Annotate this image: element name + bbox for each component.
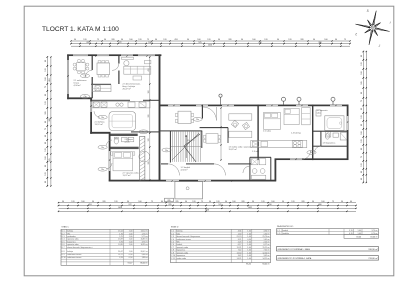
terrace table and chairs (73, 59, 89, 74)
highlight box 285 (165, 198, 174, 201)
svg-text:10,95: 10,95 (118, 244, 123, 246)
svg-text:90: 90 (252, 201, 254, 203)
svg-text:spavaća soba: spavaća soba (67, 239, 79, 241)
west wall middle section with window (90, 99, 92, 134)
svg-text:120: 120 (361, 163, 363, 166)
door arc bedroom left (107, 163, 113, 169)
svg-text:Čbr: Čbr (83, 95, 86, 98)
svg-text:D 6: D 6 (62, 244, 65, 246)
svg-text:13,12: 13,12 (118, 231, 123, 233)
svg-text:14,21 m²: 14,21 m² (263, 257, 271, 260)
svg-text:4,34 m²: 4,34 m² (74, 84, 81, 87)
small bath WC (325, 134, 329, 140)
svg-text:Čbr: Čbr (196, 118, 199, 121)
shaft hatched column (140, 136, 145, 180)
small table and chairs east wing (204, 134, 221, 144)
svg-text:25,70 m²: 25,70 m² (263, 235, 271, 238)
door arc bathroom left (107, 140, 113, 146)
svg-text:90: 90 (187, 39, 189, 41)
interior dimension line east wing (220, 107, 221, 160)
wall small bath east (313, 131, 348, 147)
svg-text:1,88 m²: 1,88 m² (142, 256, 149, 259)
table ZAJEDNICKI DIO (277, 225, 379, 238)
svg-text:STAN C: STAN C (61, 226, 69, 229)
svg-text:D 2: D 2 (62, 233, 65, 235)
svg-text:326: 326 (102, 201, 105, 203)
svg-text:1,00: 1,00 (129, 251, 133, 253)
svg-text:120: 120 (138, 39, 141, 41)
svg-text:160: 160 (252, 39, 255, 41)
svg-text:stubište: stubište (283, 232, 289, 235)
bar GRUPA BRUTO (277, 256, 379, 260)
svg-text:196,90 m²: 196,90 m² (368, 248, 378, 251)
wall office east (227, 128, 230, 143)
right dimension chain (361, 51, 367, 184)
svg-text:90: 90 (341, 201, 343, 203)
svg-text:natkrivena terasa: natkrivena terasa (67, 253, 82, 256)
svg-text:15,87 m²: 15,87 m² (141, 238, 149, 241)
svg-text:2,25 m²: 2,25 m² (264, 240, 271, 243)
svg-text:4,34 m²: 4,34 m² (181, 169, 188, 172)
wall dining-living divider with door (118, 56, 119, 84)
wall under kitchen counters (91, 100, 160, 101)
svg-text:garderoba: garderoba (67, 235, 76, 238)
svg-text:90: 90 (361, 171, 363, 173)
svg-text:1,76: 1,76 (119, 233, 123, 235)
door arc kitchen hall (94, 111, 100, 117)
svg-text:3,42: 3,42 (238, 255, 242, 257)
svg-text:18,40: 18,40 (356, 236, 361, 238)
svg-text:525: 525 (218, 204, 221, 206)
svg-text:5,64 m²: 5,64 m² (142, 253, 149, 256)
svg-text:Čbr: Čbr (101, 146, 104, 149)
wall above bathroom dark band (111, 134, 138, 136)
svg-text:120: 120 (288, 39, 291, 41)
svg-text:60: 60 (45, 135, 47, 137)
svg-text:160: 160 (271, 201, 274, 203)
svg-text:GRUPA NETO POVRŠINA 1. KATA: GRUPA NETO POVRŠINA 1. KATA (278, 248, 311, 251)
sink east bathroom (316, 110, 321, 116)
svg-text:326: 326 (111, 39, 114, 41)
svg-text:0,50: 0,50 (247, 239, 251, 241)
svg-text:1,00: 1,00 (129, 231, 133, 233)
svg-text:1,76 m²: 1,76 m² (142, 232, 149, 235)
svg-text:13,12 m²: 13,12 m² (95, 123, 103, 126)
washing machine east bathroom (325, 132, 330, 137)
svg-text:10,95 m²: 10,95 m² (141, 243, 149, 246)
svg-text:1024: 1024 (118, 207, 122, 209)
svg-text:1,00: 1,00 (247, 231, 251, 233)
door arc small bath (314, 146, 321, 153)
svg-text:75: 75 (45, 128, 47, 130)
svg-text:6,70 m²: 6,70 m² (372, 232, 379, 235)
svg-text:75: 75 (97, 39, 99, 41)
svg-text:0,50: 0,50 (129, 257, 133, 259)
door arc utility (243, 166, 250, 173)
svg-text:75: 75 (361, 100, 363, 102)
central spine wall between wings (159, 54, 161, 181)
staircase treads (171, 132, 202, 162)
west wall lower section (109, 133, 111, 181)
svg-text:160: 160 (361, 131, 363, 134)
svg-text:453: 453 (174, 39, 177, 41)
svg-text:ZAJEDNIČKI DIO: ZAJEDNIČKI DIO (277, 225, 294, 228)
tv bench living room (122, 57, 134, 59)
left dimension chain (45, 56, 52, 187)
svg-text:1,00: 1,00 (247, 244, 251, 246)
svg-text:160: 160 (321, 201, 324, 203)
dining table east wing (175, 111, 193, 123)
svg-text:90: 90 (361, 92, 363, 94)
svg-text:5,75 m²: 5,75 m² (142, 235, 149, 238)
balcony south (175, 182, 203, 199)
door tag corridor (139, 130, 148, 134)
svg-text:3,70 m²: 3,70 m² (372, 229, 379, 232)
svg-text:90: 90 (62, 201, 64, 203)
exterior wall top of left wing with windows (67, 54, 161, 56)
svg-text:D 7: D 7 (62, 247, 65, 249)
svg-text:C 9: C 9 (171, 252, 174, 254)
bar GRUPA NETO (277, 247, 379, 251)
svg-text:90: 90 (361, 124, 363, 126)
svg-text:160: 160 (45, 156, 47, 159)
svg-text:D 3: D 3 (62, 236, 65, 238)
roof vent symbols (219, 94, 335, 105)
svg-text:120: 120 (261, 201, 264, 203)
svg-text:1,00: 1,00 (247, 255, 251, 257)
svg-text:60: 60 (350, 201, 352, 203)
svg-text:6,17: 6,17 (238, 244, 242, 246)
door arc corridor 1 (168, 164, 180, 176)
stair break line (184, 134, 200, 162)
svg-text:1,00: 1,00 (247, 250, 251, 252)
svg-text:96,42: 96,42 (246, 264, 251, 266)
svg-text:15×17,2: 15×17,2 (187, 139, 195, 142)
svg-text:120: 120 (71, 201, 74, 203)
svg-text:C 7: C 7 (171, 247, 174, 249)
svg-text:90: 90 (92, 201, 94, 203)
table STAN D (171, 226, 271, 266)
svg-text:326: 326 (148, 162, 150, 165)
svg-text:14,21: 14,21 (237, 258, 242, 260)
svg-text:326: 326 (241, 201, 244, 203)
svg-text:11,27: 11,27 (118, 254, 122, 256)
wall utility room (249, 157, 271, 181)
bottom dimension chain (58, 198, 357, 212)
svg-text:90: 90 (155, 39, 157, 41)
svg-text:372: 372 (118, 42, 121, 44)
svg-text:219,80 m²: 219,80 m² (368, 257, 378, 260)
svg-text:radna soba: radna soba (177, 257, 187, 260)
svg-text:1,30 m²: 1,30 m² (264, 232, 271, 235)
svg-text:90: 90 (277, 39, 279, 41)
svg-text:90: 90 (104, 39, 106, 41)
svg-text:90: 90 (74, 39, 76, 41)
bed 1 east wing (264, 112, 281, 129)
door arc terrace (85, 70, 92, 77)
svg-text:120: 120 (192, 201, 195, 203)
svg-text:7,42 m²: 7,42 m² (264, 249, 271, 252)
door tag dining east (193, 117, 202, 121)
svg-text:5,75: 5,75 (119, 236, 123, 238)
svg-text:C 8: C 8 (171, 250, 174, 252)
svg-text:STAN D: STAN D (171, 226, 179, 229)
svg-text:natkrivena terasa: natkrivena terasa (177, 238, 192, 241)
svg-text:hodnik: hodnik (283, 230, 289, 232)
svg-text:410: 410 (258, 42, 261, 44)
svg-text:86,40 m²: 86,40 m² (140, 261, 148, 264)
table STAN C (61, 226, 149, 266)
svg-text:120: 120 (361, 62, 363, 65)
svg-text:90: 90 (127, 201, 129, 203)
living room sofa group (124, 60, 151, 80)
svg-text:11,27 m²: 11,27 m² (123, 174, 131, 177)
svg-text:D 9: D 9 (62, 254, 65, 256)
svg-text:120: 120 (264, 39, 267, 41)
svg-text:90: 90 (282, 201, 284, 203)
wall corridor south of east wing (161, 163, 251, 164)
svg-text:90: 90 (361, 108, 363, 110)
svg-text:90: 90 (361, 148, 363, 150)
svg-text:90: 90 (313, 39, 315, 41)
svg-text:Čbr: Čbr (101, 116, 104, 119)
svg-text:1032: 1032 (248, 207, 252, 209)
svg-text:160: 160 (232, 201, 235, 203)
svg-text:160: 160 (148, 91, 150, 94)
svg-text:160: 160 (324, 39, 327, 41)
kitchen counter east wing (251, 140, 307, 147)
svg-text:90: 90 (225, 201, 227, 203)
svg-text:90: 90 (45, 181, 47, 183)
svg-text:90: 90 (121, 39, 123, 41)
svg-text:26,47: 26,47 (118, 251, 123, 253)
svg-text:120: 120 (207, 39, 210, 41)
wall terrace-dining divider with door (92, 56, 93, 98)
svg-text:326: 326 (301, 201, 304, 203)
bathroom toilet (114, 137, 118, 144)
wall hall-stairs left wing (131, 131, 160, 132)
south wall of east section (275, 158, 349, 160)
utility room appliances (251, 159, 265, 180)
svg-text:C 6: C 6 (171, 244, 174, 246)
svg-text:410: 410 (268, 204, 271, 206)
kitchen partition wall left wing (91, 84, 111, 85)
south wall of left-middle section with openings (109, 180, 276, 182)
svg-text:90: 90 (361, 55, 363, 57)
svg-text:265: 265 (86, 42, 89, 44)
north compass rose (352, 7, 394, 49)
svg-text:spavaća soba: spavaća soba (67, 244, 79, 246)
svg-text:160: 160 (45, 77, 47, 80)
svg-text:1,61 m²: 1,61 m² (264, 238, 271, 241)
svg-text:1,00: 1,00 (247, 233, 251, 235)
svg-text:7,42: 7,42 (238, 250, 242, 252)
svg-text:160: 160 (361, 71, 363, 74)
west step wall (90, 132, 110, 134)
svg-text:TLOCRT 1. KATA M 1:100: TLOCRT 1. KATA M 1:100 (42, 26, 119, 33)
svg-text:92,47: 92,47 (128, 262, 133, 264)
svg-text:kupaonica: kupaonica (67, 241, 76, 243)
svg-text:120: 120 (45, 101, 47, 104)
svg-text:380: 380 (318, 42, 321, 44)
svg-text:hodnik: hodnik (177, 244, 183, 246)
wall below bathroom dark band (111, 147, 139, 149)
svg-text:0,50: 0,50 (129, 254, 133, 256)
svg-text:D 4: D 4 (62, 239, 65, 241)
svg-text:3,76: 3,76 (119, 241, 123, 243)
svg-text:onica: onica (125, 142, 131, 144)
door tag terrace 2 (80, 95, 89, 99)
svg-text:380: 380 (318, 204, 321, 206)
svg-text:160: 160 (81, 201, 84, 203)
north wall of east wing with windows (160, 105, 349, 107)
svg-text:453: 453 (88, 204, 91, 206)
svg-text:90: 90 (185, 201, 187, 203)
wall bedroom divider 2 (312, 105, 313, 161)
svg-text:1.3 izba: 1.3 izba (252, 151, 260, 153)
svg-text:3,70: 3,70 (349, 230, 353, 232)
door tag bath left (98, 145, 107, 149)
svg-text:75: 75 (361, 156, 363, 158)
terrace west wall (67, 54, 69, 99)
svg-text:dnevni boravak i blagovaona: dnevni boravak i blagovaona (177, 235, 201, 238)
svg-text:C 4: C 4 (171, 239, 174, 241)
svg-text:120: 120 (216, 201, 219, 203)
svg-text:285: 285 (175, 201, 178, 203)
svg-text:C 10: C 10 (171, 255, 175, 257)
svg-text:75: 75 (344, 39, 346, 41)
svg-text:1,00: 1,00 (247, 252, 251, 254)
svg-text:Čbr: Čbr (83, 75, 86, 78)
small bath shower (340, 133, 347, 140)
door tag bedroom left (98, 167, 107, 171)
svg-text:2,25: 2,25 (238, 241, 242, 243)
svg-text:15,87: 15,87 (118, 239, 123, 241)
svg-text:326: 326 (148, 115, 150, 118)
svg-text:75: 75 (147, 39, 149, 41)
svg-text:453: 453 (148, 69, 150, 72)
svg-text:15,87 m²: 15,87 m² (229, 148, 237, 151)
bathroom sinks (122, 137, 134, 141)
svg-text:C 1: C 1 (277, 230, 280, 232)
svg-text:1,00: 1,00 (247, 236, 251, 238)
svg-text:60: 60 (161, 201, 163, 203)
wall office north (200, 127, 228, 128)
svg-text:spavaća soba: spavaća soba (177, 247, 189, 249)
svg-text:Čbr: Čbr (165, 149, 168, 152)
svg-text:spavaća soba: spavaća soba (177, 252, 189, 254)
svg-text:3,42 m²: 3,42 m² (264, 254, 271, 257)
svg-text:90: 90 (45, 165, 47, 167)
svg-text:natkrivena terasa: natkrivena terasa (67, 256, 82, 259)
svg-text:3,76 m²: 3,76 m² (142, 240, 149, 243)
svg-text:75: 75 (45, 86, 47, 88)
svg-text:12,50: 12,50 (237, 252, 242, 254)
svg-text:1,00: 1,00 (247, 247, 251, 249)
svg-text:1,00: 1,00 (247, 258, 251, 260)
svg-text:kuhinja: kuhinja (67, 251, 74, 253)
terrace south wall (67, 97, 92, 99)
svg-text:Čbr: Čbr (142, 131, 145, 134)
svg-text:GRUPA BRUTO POVRŠINA 1. KATA: GRUPA BRUTO POVRŠINA 1. KATA (278, 257, 312, 260)
svg-text:1,00: 1,00 (129, 244, 133, 246)
svg-text:dnevni boravak, blagovaonica i: dnevni boravak, blagovaonica i (67, 246, 93, 249)
svg-text:1,00: 1,00 (129, 239, 133, 241)
svg-text:120: 120 (45, 68, 47, 71)
svg-text:Čbr: Čbr (310, 151, 313, 154)
top dimension chain (70, 39, 351, 47)
interior door dims (67, 55, 348, 181)
wall bedroom divider 1 (257, 105, 258, 161)
svg-text:1,30: 1,30 (238, 233, 242, 235)
svg-text:326: 326 (300, 39, 303, 41)
svg-text:120: 120 (114, 201, 117, 203)
kitchen counter upper (92, 85, 111, 92)
svg-text:1,00: 1,00 (129, 236, 133, 238)
svg-text:C 5: C 5 (171, 241, 174, 243)
shower circle in bathroom (139, 151, 150, 162)
wardrobe east wing (302, 108, 311, 125)
wall entry corridor (202, 105, 203, 119)
svg-text:C 11: C 11 (171, 258, 175, 260)
entry door arc (203, 107, 217, 121)
svg-text:120: 120 (361, 115, 363, 118)
svg-text:160: 160 (129, 39, 132, 41)
svg-text:90: 90 (209, 201, 211, 203)
svg-text:6,17 m²: 6,17 m² (264, 243, 271, 246)
door tag kitchen (98, 115, 107, 119)
svg-text:1.5 soba: 1.5 soba (263, 131, 272, 133)
south step wall east (275, 159, 277, 181)
svg-text:12,50 m²: 12,50 m² (263, 251, 271, 254)
svg-text:kupaonica: kupaonica (177, 250, 186, 252)
svg-text:525: 525 (49, 158, 51, 161)
svg-text:2056: 2056 (208, 45, 212, 47)
svg-text:453: 453 (49, 78, 51, 81)
svg-text:90: 90 (218, 39, 220, 41)
kitchen counter band with appliances (92, 101, 150, 108)
island table left wing (109, 112, 136, 131)
interior dimension line left wing (148, 56, 150, 180)
svg-text:90: 90 (45, 142, 47, 144)
svg-text:160: 160 (138, 201, 141, 203)
svg-text:C 1: C 1 (171, 231, 174, 233)
svg-text:15,21 m²: 15,21 m² (263, 246, 271, 249)
svg-text:D 1: D 1 (62, 231, 65, 233)
small bath sink (333, 133, 338, 137)
svg-text:120: 120 (148, 139, 150, 142)
svg-text:75: 75 (332, 201, 334, 203)
bed 2 east wing (284, 108, 299, 124)
svg-text:Čbr: Čbr (101, 168, 104, 171)
svg-text:kuhinja: kuhinja (177, 231, 184, 233)
svg-text:1,00: 1,00 (247, 241, 251, 243)
svg-text:90: 90 (241, 39, 243, 41)
svg-text:90: 90 (45, 121, 47, 123)
svg-text:25,70: 25,70 (237, 236, 242, 238)
svg-text:4,34: 4,34 (238, 231, 242, 233)
svg-text:75: 75 (151, 201, 153, 203)
svg-text:526: 526 (361, 81, 363, 84)
svg-text:C 2: C 2 (171, 233, 174, 235)
svg-text:285: 285 (168, 204, 171, 206)
bathtub east bathroom (325, 116, 344, 131)
bed left wing (111, 152, 135, 171)
svg-text:kupaonica: kupaonica (177, 255, 186, 257)
svg-text:1,00: 1,00 (358, 230, 362, 232)
svg-text:90: 90 (335, 39, 337, 41)
east exterior wall with window (347, 105, 349, 161)
